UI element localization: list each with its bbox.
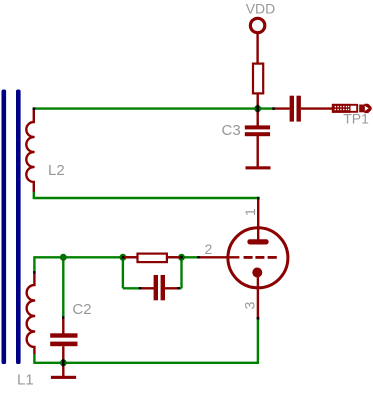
node junction at resistor/C3 bbox=[254, 105, 261, 112]
svg-text:1: 1 bbox=[242, 208, 258, 216]
wire net L2 bottom to tube plate (y=198) bbox=[34, 197, 258, 199]
wire C2 top vertical bbox=[62, 256, 64, 317]
wire RC bottom left segment bbox=[123, 287, 141, 289]
wire grid lead bbox=[199, 256, 239, 258]
resistor (grid leak) bbox=[124, 254, 181, 263]
node black corner at L2 top bbox=[33, 107, 36, 110]
wire net grid row (y=257.3) bbox=[34, 256, 198, 258]
plate lead (pin 1) bbox=[257, 198, 259, 241]
wire net cathode/ground row (y=362.8) bbox=[34, 362, 259, 364]
node black tick RC bottom left bbox=[139, 287, 142, 289]
wire RC right vertical bbox=[180, 257, 182, 288]
wire cathode vertical bbox=[257, 318, 259, 365]
inductor L2 (transformer secondary) bbox=[26, 109, 64, 192]
power VDD terminal bbox=[246, 1, 276, 64]
capacitor (grid, parallel with grid leak) bbox=[140, 275, 179, 300]
pin label 1 bbox=[242, 208, 258, 216]
svg-text:2: 2 bbox=[205, 241, 213, 257]
wire resistor to junction and C3 bbox=[257, 94, 259, 126]
wire lead junction to series capacitor bbox=[273, 107, 290, 109]
node black tick RC bottom right bbox=[177, 287, 180, 289]
plate bar bbox=[247, 239, 268, 244]
node black crossing at L1 ground junction bbox=[62, 359, 64, 366]
svg-text:L2: L2 bbox=[48, 162, 65, 179]
grid dashes bbox=[244, 256, 253, 259]
wire L1 bottom vertical stub bbox=[33, 354, 35, 364]
node black tick grid net end bbox=[197, 256, 200, 258]
node black tick at cathode net bbox=[257, 317, 260, 320]
transformer core bbox=[2, 90, 21, 365]
node junction RC right bbox=[178, 254, 185, 261]
node black crossing at junction bbox=[257, 105, 259, 112]
node junction at C2 top bbox=[60, 254, 67, 261]
node black crossing RC left bbox=[122, 256, 124, 258]
resistor (anode load) bbox=[253, 64, 263, 94]
node black tick at C2 pin bbox=[62, 316, 64, 319]
wire net VDD/plate top (y=108.6) bbox=[34, 107, 274, 109]
wire capacitor to TP1 bbox=[301, 107, 333, 109]
cathode dot bbox=[252, 268, 262, 278]
svg-text:VDD: VDD bbox=[246, 1, 276, 17]
node black crossing RC right bbox=[180, 256, 182, 258]
wire L2 bottom vertical stub bbox=[33, 192, 35, 200]
inductor L1 (transformer primary / tank) bbox=[17, 272, 35, 388]
pin label 3 bbox=[242, 301, 258, 309]
node black corner at plate net bbox=[257, 197, 260, 200]
capacitor C2 (tank) bbox=[50, 301, 91, 376]
svg-text:L1: L1 bbox=[17, 371, 34, 388]
node junction at L1 ground bbox=[60, 359, 67, 366]
wire RC left vertical bbox=[122, 257, 124, 288]
ground (below C3) bbox=[246, 166, 271, 169]
wire L1 top vertical stub bbox=[33, 256, 35, 272]
triode (vacuum tube) bbox=[228, 198, 288, 319]
svg-text:C3: C3 bbox=[222, 122, 241, 139]
svg-text:TP1: TP1 bbox=[343, 111, 369, 127]
svg-text:C2: C2 bbox=[72, 301, 91, 318]
ground (below L1/C2) bbox=[51, 376, 76, 379]
pin label 2 bbox=[205, 241, 213, 257]
testpoint TP1 bbox=[332, 104, 372, 127]
cathode lead (pin 3) bbox=[257, 276, 259, 319]
node junction RC left bbox=[119, 254, 126, 261]
svg-text:3: 3 bbox=[242, 301, 258, 309]
node black tick at L1 top pin bbox=[33, 271, 35, 274]
capacitor (series, output coupling) bbox=[290, 96, 301, 122]
capacitor C3 bbox=[222, 122, 271, 167]
wire RC bottom right segment bbox=[178, 287, 182, 289]
node black tick at top wire pin transition bbox=[272, 107, 275, 109]
